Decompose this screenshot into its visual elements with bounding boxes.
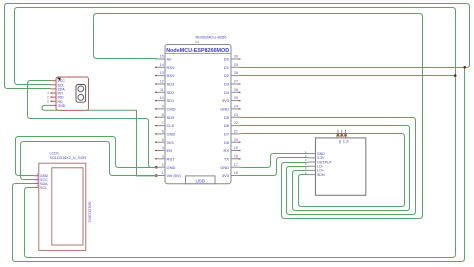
svg-text:A0: A0 <box>167 57 173 62</box>
junction dot on D1 line (SDA net) <box>463 66 466 69</box>
svg-text:18: 18 <box>234 154 238 158</box>
junction dot at NodeMCU pin 1 Vin <box>155 174 158 177</box>
pin 2 VCC (LCD) <box>34 176 49 182</box>
svg-text:6: 6 <box>162 130 164 134</box>
pin OUTPUT (AD8232) <box>305 158 333 164</box>
svg-text:LCD1: LCD1 <box>50 152 59 156</box>
pin 15 A0 (NodeMCU left) <box>155 55 172 62</box>
pin LO- (AD8232) <box>305 162 324 168</box>
junction dot at NodeMCU pin 2 GND <box>155 166 158 169</box>
wire LCD GND loop to NodeMCU GND pin 2 <box>16 137 157 176</box>
svg-text:12: 12 <box>160 80 164 84</box>
svg-text:RSV: RSV <box>167 73 176 78</box>
svg-text:SD3: SD3 <box>167 82 176 87</box>
svg-text:3V3: 3V3 <box>167 140 175 145</box>
svg-text:19: 19 <box>234 146 238 150</box>
pin 3 RST (NodeMCU left) <box>155 154 175 161</box>
svg-text:SD0: SD0 <box>167 115 176 120</box>
pin GND (sensor) <box>51 104 66 108</box>
pin 5 3V3 (NodeMCU left) <box>155 138 174 145</box>
svg-text:GND: GND <box>220 165 229 170</box>
svg-text:4: 4 <box>162 146 164 150</box>
svg-text:D2: D2 <box>224 73 230 78</box>
wire NodeMCU D7 to AD8232 SDN <box>241 134 405 207</box>
pin 4 SCL (LCD) <box>34 184 48 190</box>
svg-text:28: 28 <box>234 71 238 75</box>
svg-text:USB: USB <box>195 178 204 183</box>
svg-text:D7: D7 <box>224 132 230 137</box>
pin SDN (AD8232) <box>305 171 325 177</box>
wire NodeMCU D2 to SCL junction <box>241 75 456 77</box>
svg-text:SDN: SDN <box>317 173 325 177</box>
svg-text:5: 5 <box>162 138 164 142</box>
svg-text:2: 2 <box>162 163 164 167</box>
svg-text:GND: GND <box>220 107 229 112</box>
wire NodeMCU GND pin 17 to AD8232 GND <box>241 154 308 168</box>
wire NodeMCU 3V3 pin 16 to AD8232 3.3V <box>241 158 308 176</box>
svg-text:Vin (5V): Vin (5V) <box>167 173 182 178</box>
svg-text:RSV: RSV <box>167 65 176 70</box>
label SOLCD16X2 rotated on LCD right edge <box>88 202 92 223</box>
svg-text:RA: RA <box>338 140 342 144</box>
pin SCL (sensor) <box>51 83 65 87</box>
pin INT (sensor) <box>47 91 64 95</box>
svg-text:29: 29 <box>234 63 238 67</box>
svg-text:15: 15 <box>160 55 164 59</box>
pin 22 D6 (NodeMCU right) <box>224 121 241 128</box>
svg-text:SOLCD16X2_N_GOR: SOLCD16X2_N_GOR <box>50 156 87 160</box>
pin 12 SD3 (NodeMCU left) <box>155 80 175 87</box>
pin 7 CLK (NodeMCU left) <box>155 121 175 128</box>
pin 9 CMD (NodeMCU left) <box>155 105 176 112</box>
svg-text:30: 30 <box>234 55 238 59</box>
svg-text:3V3: 3V3 <box>222 173 230 178</box>
svg-text:RX: RX <box>223 148 229 153</box>
pin 23 D5 (NodeMCU right) <box>224 113 241 120</box>
wire net SDA branch: junction down and around bottom to LCD SDA <box>13 68 465 262</box>
svg-text:EN: EN <box>167 148 173 153</box>
svg-text:14: 14 <box>160 63 164 67</box>
svg-text:9: 9 <box>162 105 164 109</box>
wire LCD VCC loop to NodeMCU Vin pin 1 <box>21 142 157 180</box>
LCD1 body (16x2 I2C LCD) <box>39 163 86 250</box>
svg-text:1: 1 <box>162 171 164 175</box>
electrode pin RL (AD8232 top) <box>344 130 350 144</box>
svg-text:D6: D6 <box>224 123 230 128</box>
pin GND (AD8232) <box>305 150 326 156</box>
svg-text:13: 13 <box>160 71 164 75</box>
svg-text:LA: LA <box>342 140 346 143</box>
svg-text:GND: GND <box>167 165 176 170</box>
electrode pin LA (AD8232 top) <box>340 130 346 144</box>
pin 20 D8 (NodeMCU right) <box>224 138 241 145</box>
pin 1 Vin (5V) (NodeMCU left) <box>155 171 182 178</box>
svg-text:GND: GND <box>167 132 176 137</box>
svg-text:SCL: SCL <box>40 186 47 190</box>
svg-text:NODEMCU-8266: NODEMCU-8266 <box>196 34 228 39</box>
svg-text:22: 22 <box>234 121 238 125</box>
svg-text:27: 27 <box>234 80 238 84</box>
svg-text:TX: TX <box>224 156 229 161</box>
svg-text:U1: U1 <box>195 40 199 44</box>
svg-text:D0: D0 <box>224 57 230 62</box>
svg-text:10: 10 <box>160 96 164 100</box>
pin VCC (sensor) <box>51 79 66 83</box>
pin 16 3V3 (NodeMCU right) <box>222 171 241 178</box>
label LCD1 <box>50 152 87 161</box>
pin 8 SD0 (NodeMCU left) <box>155 113 175 120</box>
svg-text:16: 16 <box>234 171 238 175</box>
pin 4 EN (NodeMCU left) <box>155 146 172 153</box>
svg-text:11: 11 <box>160 88 164 92</box>
svg-text:SOLCD16X2: SOLCD16X2 <box>88 202 92 223</box>
pin 18 TX (NodeMCU right) <box>224 154 241 161</box>
pin 30 D0 (NodeMCU right) <box>224 55 241 62</box>
pin 2 GND (NodeMCU left) <box>155 163 176 170</box>
wire sensor VCC to NodeMCU GND pin 2 <box>28 81 157 168</box>
AD8232 module body <box>316 138 366 195</box>
pin SDA (sensor) <box>51 87 66 91</box>
svg-text:RST: RST <box>167 156 176 161</box>
svg-text:23: 23 <box>234 113 238 117</box>
svg-text:20: 20 <box>234 138 238 142</box>
electrode pin RA (AD8232 top) <box>336 130 342 144</box>
pin 3.3V (AD8232) <box>305 154 325 160</box>
svg-text:D5: D5 <box>224 115 230 120</box>
svg-text:17: 17 <box>234 163 238 167</box>
pin 10 SD1 (NodeMCU left) <box>155 96 175 103</box>
pin 11 SD2 (NodeMCU left) <box>155 88 175 95</box>
wire NodeMCU A0 to AD8232 OUTPUT around top and right <box>94 14 423 219</box>
svg-text:7: 7 <box>162 121 164 125</box>
svg-text:SD2: SD2 <box>167 90 176 95</box>
svg-text:25: 25 <box>234 96 238 100</box>
pin 21 D7 (NodeMCU right) <box>224 130 241 137</box>
wire NodeMCU D6 to AD8232 LO+ <box>241 126 410 211</box>
svg-text:GND: GND <box>58 104 66 108</box>
title NodeMCU-ESP8266MOD <box>166 48 229 54</box>
USB connector box on NodeMCU <box>186 176 216 184</box>
pin RD (sensor) <box>47 100 63 104</box>
svg-text:26: 26 <box>234 88 238 92</box>
junction dot on D2 line (SCL net) <box>454 74 457 77</box>
pin 24 GND (NodeMCU right) <box>220 105 240 112</box>
pin 28 D2 (NodeMCU right) <box>224 71 241 78</box>
svg-text:SD1: SD1 <box>167 98 176 103</box>
pin 6 GND (NodeMCU left) <box>155 130 176 137</box>
svg-text:CMD: CMD <box>167 107 176 112</box>
svg-text:3V3: 3V3 <box>222 98 230 103</box>
pin 27 D3 (NodeMCU right) <box>224 80 241 87</box>
pin LO+ (AD8232) <box>305 167 324 173</box>
pin 17 GND (NodeMCU right) <box>220 163 240 170</box>
sensor module body (pulse oximeter) <box>56 77 89 110</box>
pin 29 D1 (NodeMCU right) <box>224 63 241 70</box>
pin 25 3V3 (NodeMCU right) <box>222 96 241 103</box>
pin 26 D4 (NodeMCU right) <box>224 88 241 95</box>
svg-text:D4: D4 <box>224 90 230 95</box>
pin 13 RSV (NodeMCU left) <box>155 71 175 78</box>
svg-text:RL: RL <box>346 140 350 144</box>
svg-text:D8: D8 <box>224 140 230 145</box>
svg-text:NodeMCU-ESP8266MOD: NodeMCU-ESP8266MOD <box>166 48 229 54</box>
pin IRD (sensor) <box>47 95 64 99</box>
wire net SDA: sensor SDA around top to NodeMCU D1 <box>5 4 470 89</box>
svg-text:24: 24 <box>234 105 238 109</box>
svg-text:D3: D3 <box>224 82 230 87</box>
svg-text:3: 3 <box>162 154 164 158</box>
module U1 NodeMCU-ESP8266MOD body <box>165 45 231 184</box>
wire sensor GND to NodeMCU Vin pin 1 <box>42 105 156 175</box>
pin 3 SDA (LCD) <box>34 180 49 186</box>
pin 1 GND (LCD) <box>34 172 49 178</box>
wire NodeMCU D5 to AD8232 LO- <box>241 118 416 215</box>
pin 19 RX (NodeMCU right) <box>223 146 240 153</box>
svg-text:8: 8 <box>162 113 164 117</box>
svg-text:21: 21 <box>234 130 238 134</box>
svg-text:CLK: CLK <box>167 123 175 128</box>
label NODEMCU-8266 above module <box>195 34 227 43</box>
svg-text:D1: D1 <box>224 65 230 70</box>
sensor LED window with two circles <box>76 85 86 103</box>
pin 14 RSV (NodeMCU left) <box>155 63 175 70</box>
